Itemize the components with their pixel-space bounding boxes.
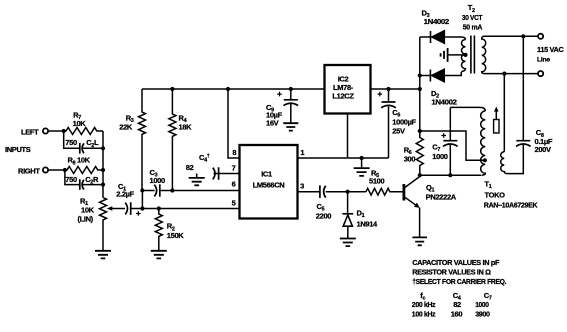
- junction dot C2L bus: [101, 146, 105, 150]
- junction dot R3 bottom: [140, 188, 144, 192]
- svg-text:160: 160: [451, 309, 463, 318]
- svg-text:R8 10K: R8 10K: [68, 156, 91, 167]
- wire 750-C2R branch left: [65, 170, 79, 185]
- wire pin8 to rail: [228, 89, 240, 158]
- wire IC2 output to rectifier: [371, 88, 420, 90]
- slug arrow T1: [495, 111, 497, 120]
- ground below R2: [151, 251, 167, 259]
- svg-text:1000: 1000: [432, 152, 447, 161]
- svg-text:300: 300: [404, 155, 416, 164]
- wiper arrow R1: [107, 206, 113, 211]
- wire C2L to bus: [83, 147, 104, 149]
- ground bars mid: [354, 168, 370, 176]
- svg-text:1N4002: 1N4002: [431, 98, 456, 107]
- wire C5 to R5: [326, 191, 366, 193]
- resistor R3: [139, 89, 146, 191]
- wire RIGHT terminal to R8: [48, 169, 65, 171]
- capacitor C4: [213, 167, 219, 180]
- wire C6 stem top: [388, 89, 390, 102]
- svg-text:10K: 10K: [73, 119, 87, 128]
- wire node A vertical: [141, 191, 143, 209]
- junction dot rail IC2: [418, 87, 422, 91]
- slug arrowhead T1: [494, 107, 499, 112]
- wire ground run pin1: [298, 157, 389, 159]
- wire pin6 run: [142, 190, 239, 192]
- capacitor C3: [154, 184, 160, 197]
- wire IC2 bottom to ground run: [347, 114, 349, 159]
- junction dot C6 top: [386, 87, 390, 91]
- capacitor C5: [320, 185, 326, 198]
- junction dot R2 top: [157, 206, 161, 210]
- svg-text:750: 750: [65, 138, 77, 147]
- capacitor C2R: [80, 179, 84, 190]
- svg-text:3900: 3900: [475, 309, 490, 318]
- transistor Q1 collector: [405, 177, 420, 188]
- capacitor C9: [284, 100, 299, 106]
- svg-text:10K: 10K: [81, 206, 95, 215]
- svg-text:LEFT: LEFT: [21, 127, 39, 136]
- diode D1: [342, 214, 353, 226]
- wire +12V top rail: [142, 88, 325, 90]
- wire D2 anode: [420, 75, 430, 77]
- svg-text:200 kHz: 200 kHz: [412, 300, 436, 309]
- svg-text:PN2222A: PN2222A: [426, 192, 457, 201]
- resistor R6: [416, 131, 423, 175]
- transistor Q1 base bar: [402, 184, 405, 201]
- wire D2 to T2: [444, 72, 461, 76]
- wire C8 stem top: [522, 36, 524, 140]
- svg-text:3: 3: [300, 182, 304, 191]
- ground below R1: [95, 251, 111, 259]
- wire D1 to ground: [347, 226, 349, 238]
- ground sideways T2 CT: [441, 48, 448, 62]
- svg-text:8: 8: [232, 148, 236, 157]
- junction dot R4 bottom: [170, 188, 174, 192]
- svg-text:2.2µF: 2.2µF: [116, 190, 134, 199]
- svg-text:(LIN): (LIN): [78, 215, 94, 224]
- svg-text:IC1: IC1: [261, 170, 272, 179]
- resistor R2: [155, 209, 162, 251]
- transformer T1 primary: [481, 111, 486, 175]
- junction dot R8 bus: [101, 168, 105, 172]
- resistor R8: [65, 167, 103, 174]
- capacitor C6: [381, 102, 396, 108]
- wire T2 to line top: [484, 35, 538, 37]
- voltage regulator IC2 box: [325, 65, 371, 114]
- wire emitter to ground: [419, 208, 421, 238]
- junction dot collector node: [418, 173, 422, 177]
- wire LEFT terminal to R7: [48, 130, 64, 132]
- transistor Q1 emitter: [405, 197, 418, 206]
- ground bars C4: [189, 178, 205, 185]
- svg-text:Line: Line: [537, 57, 550, 64]
- plus sign C1: [136, 211, 141, 216]
- transformer T2 core: [471, 36, 475, 74]
- svg-text:†SELECT FOR CARRIER FREQ.: †SELECT FOR CARRIER FREQ.: [412, 277, 506, 286]
- junction dot R7 left: [62, 129, 66, 133]
- plus sign C6: [378, 92, 383, 97]
- wire T1 secondary bottom to C8: [507, 145, 523, 174]
- svg-text:D1: D1: [357, 209, 365, 220]
- ground at C4: [196, 174, 198, 178]
- svg-text:1N4002: 1N4002: [424, 17, 449, 26]
- svg-text:L12CZ: L12CZ: [332, 92, 354, 101]
- wire wiper to C1: [112, 208, 125, 210]
- transformer T2 right winding: [482, 36, 486, 73]
- svg-text:100 kHz: 100 kHz: [412, 309, 436, 318]
- ground below C9: [283, 123, 298, 130]
- wire D1 stem: [347, 192, 349, 214]
- svg-text:LM566CN: LM566CN: [253, 181, 285, 190]
- svg-text:RAN–10A6729EK: RAN–10A6729EK: [484, 200, 538, 209]
- resistor R7: [64, 128, 103, 135]
- svg-text:1N914: 1N914: [357, 220, 379, 229]
- capacitor C7: [443, 141, 458, 147]
- terminal line bottom: [538, 71, 543, 76]
- wire 750-C2L branch left: [64, 131, 80, 148]
- svg-text:1000: 1000: [475, 300, 489, 309]
- svg-text:C4†: C4†: [199, 153, 210, 164]
- wire C6 stem bottom: [388, 106, 390, 158]
- svg-text:82: 82: [453, 300, 461, 309]
- wire C1 to pin5 run: [131, 208, 240, 210]
- op-amp IC1 box: [240, 145, 298, 219]
- ground bars Q1: [412, 237, 427, 245]
- svg-text:C2L: C2L: [86, 138, 99, 149]
- svg-text:200V: 200V: [535, 145, 551, 154]
- capacitor C2L: [80, 143, 84, 154]
- resistor R5: [366, 188, 403, 195]
- wire C7 stem bottom: [449, 145, 451, 175]
- junction dot audio node: [140, 206, 144, 210]
- wire summing bus: [102, 131, 104, 198]
- svg-text:1000µF: 1000µF: [392, 117, 416, 126]
- svg-text:5: 5: [232, 199, 236, 208]
- junction dot R8 left: [63, 168, 67, 172]
- diode D3: [431, 31, 445, 43]
- junction dot R4 top: [170, 87, 174, 91]
- svg-text:RIGHT: RIGHT: [18, 166, 40, 175]
- wire collector node to T1 bottom: [420, 174, 482, 176]
- terminal LEFT input: [43, 128, 48, 133]
- svg-text:82: 82: [186, 163, 194, 172]
- svg-text:115 VAC: 115 VAC: [537, 45, 564, 54]
- terminal line top: [538, 34, 543, 39]
- svg-text:1: 1: [300, 148, 304, 157]
- junction dot line bottom: [502, 72, 506, 76]
- wire T1 secondary top: [503, 74, 505, 152]
- svg-text:750: 750: [65, 175, 77, 184]
- wire ground stem: [361, 158, 363, 168]
- junction dot rail R6 top: [418, 129, 422, 133]
- diode D2: [430, 69, 444, 81]
- svg-text:6: 6: [232, 180, 236, 189]
- wire rectifier rail: [419, 37, 421, 131]
- svg-text:RESISTOR VALUES IN Ω: RESISTOR VALUES IN Ω: [412, 268, 491, 277]
- junction dot line top: [521, 34, 525, 38]
- terminal RIGHT input: [43, 167, 48, 172]
- junction dot C2R bus: [101, 183, 105, 187]
- wire T1 primary top run: [450, 107, 485, 111]
- junction dot T2 CT: [463, 53, 467, 57]
- junction dot pin8 rail: [226, 87, 230, 91]
- wire pin3 to C5: [298, 191, 320, 193]
- svg-text:CAPACITOR VALUES IN pF: CAPACITOR VALUES IN pF: [412, 258, 500, 267]
- plus sign C9: [277, 92, 282, 97]
- junction dot T1 tap: [483, 158, 487, 162]
- junction dot rail D2: [418, 73, 422, 77]
- ground bars D1: [340, 239, 356, 247]
- junction dot ground symbol: [360, 156, 364, 160]
- svg-text:30 VCT: 30 VCT: [462, 13, 483, 22]
- junction dot D1 top: [346, 190, 350, 194]
- plus sign C7: [441, 133, 446, 138]
- wire pin7 to C4: [214, 173, 240, 175]
- svg-text:INPUTS: INPUTS: [5, 145, 31, 154]
- svg-text:1000: 1000: [150, 176, 165, 185]
- wire C2R to bus: [83, 184, 104, 186]
- svg-text:TOKO: TOKO: [485, 190, 506, 199]
- wire T2 to line bottom: [484, 73, 538, 75]
- slug body T1: [494, 120, 499, 134]
- wire tap run: [420, 131, 485, 160]
- wire D3 anode: [420, 36, 431, 38]
- wire C9 stem top: [290, 89, 292, 99]
- transformer T1 secondary: [501, 152, 507, 174]
- capacitor C8: [516, 141, 531, 147]
- wire C7 stem top: [449, 107, 451, 140]
- wire D3 to T2: [444, 37, 465, 40]
- potentiometer R1: [100, 198, 107, 251]
- svg-text:50 mA: 50 mA: [463, 22, 483, 31]
- svg-text:25V: 25V: [392, 126, 405, 135]
- transformer T2 left winding: [461, 40, 465, 72]
- svg-text:150K: 150K: [167, 231, 184, 240]
- transistor Q1 emitter arrow: [414, 203, 420, 208]
- svg-text:2200: 2200: [316, 211, 331, 220]
- capacitor C1: [125, 202, 131, 215]
- svg-text:16V: 16V: [266, 119, 279, 128]
- svg-text:7: 7: [232, 164, 236, 173]
- svg-text:T1: T1: [485, 179, 492, 190]
- wire T2 center tap: [448, 54, 466, 56]
- wire C9 stem bottom: [290, 104, 292, 123]
- resistor R4: [169, 89, 176, 191]
- svg-text:22K: 22K: [119, 123, 133, 132]
- svg-text:5100: 5100: [369, 177, 384, 186]
- junction dot C7 bottom: [448, 173, 452, 177]
- junction dot C9 rail: [289, 87, 293, 91]
- svg-text:18K: 18K: [179, 123, 193, 132]
